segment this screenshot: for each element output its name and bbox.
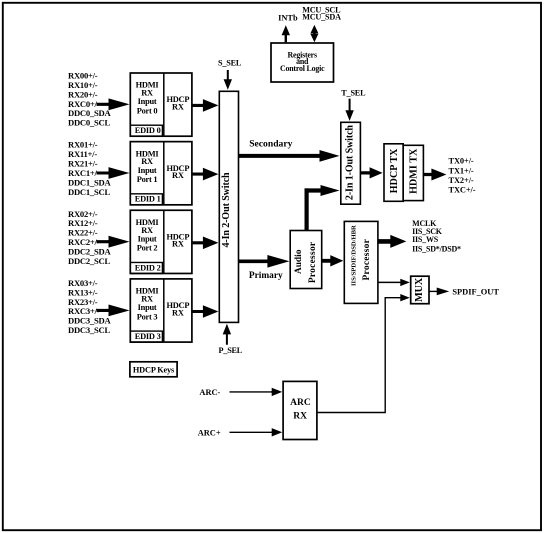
svg-text:TXC+/-: TXC+/- <box>449 186 476 195</box>
svg-text:Control Logic: Control Logic <box>280 64 325 73</box>
svg-text:DDC1_SCL: DDC1_SCL <box>68 187 110 197</box>
svg-text:Audio: Audio <box>294 249 304 274</box>
text: ARC RX <box>290 398 311 421</box>
svg-text:DDC0_SCL: DDC0_SCL <box>68 118 110 128</box>
wire: arrow HDCP RX 2 to 4-In 2-Out Switch <box>192 237 219 250</box>
outline port 2 box <box>130 210 192 273</box>
wire: ARC RX output to MUX <box>317 298 400 413</box>
wire: INTb arrow up <box>282 25 290 42</box>
wire: arrow Audio Processor to IIS/SPDIF processor <box>322 255 343 266</box>
wire: MCU_SCL/SDA double arrow <box>310 25 318 42</box>
svg-text:Processor: Processor <box>362 239 372 281</box>
svg-text:TX0+/-: TX0+/- <box>449 157 474 166</box>
wire: arrow HDCP RX 0 to 4-In 2-Out Switch <box>192 99 219 112</box>
wire: ARC- line <box>230 391 273 393</box>
wire: Primary bus arrow <box>239 255 290 268</box>
block: 2-In 1-Out Switch <box>341 122 361 204</box>
wire: P_SEL arrow into switch bottom <box>223 324 231 345</box>
svg-text:2-In 1-Out Switch: 2-In 1-Out Switch <box>344 125 355 201</box>
wire: ARC+ arrowhead <box>271 428 282 436</box>
svg-text:HDCP TX: HDCP TX <box>389 148 400 193</box>
outline port 0 box <box>130 73 192 136</box>
svg-text:EDID 2: EDID 2 <box>135 263 161 272</box>
svg-text:Primary: Primary <box>249 271 283 281</box>
svg-text:RX: RX <box>172 308 184 317</box>
wire: thick arrow IIS outputs <box>378 235 406 248</box>
text: Audio Processor <box>294 242 318 284</box>
wire: thick input arrow into port 2 <box>97 236 130 248</box>
block: 4-In 2-Out Switch <box>219 91 238 322</box>
wire: arrowhead ARC line into MUX <box>399 294 410 301</box>
labels: TX outputs <box>449 157 476 195</box>
text: Registers and Control Logic <box>280 51 325 73</box>
svg-text:Secondary: Secondary <box>249 139 292 150</box>
svg-text:MUX: MUX <box>414 277 425 302</box>
wire: thick input arrow into port 1 <box>97 167 130 179</box>
svg-text:RX: RX <box>172 171 184 180</box>
wire: HDMI TX output arrow <box>423 169 446 181</box>
svg-text:RX: RX <box>293 412 307 422</box>
svg-text:IIS_WS: IIS_WS <box>412 235 439 244</box>
block: HDMI RX Input Port 1 (with HDCP RX cell) <box>130 142 192 205</box>
block: HDMI TX <box>403 145 423 200</box>
wire: arrow HDCP RX 1 to 4-In 2-Out Switch <box>192 168 219 181</box>
labels: port 3 input signal names <box>68 278 111 335</box>
svg-text:Port 0: Port 0 <box>137 106 158 115</box>
wire: arrow IIS processor to MUX <box>378 279 410 286</box>
svg-text:RX: RX <box>172 240 184 249</box>
divider line port 0 <box>163 73 165 136</box>
outline port 1 box <box>130 142 192 205</box>
svg-text:TX1+/-: TX1+/- <box>449 166 474 175</box>
svg-text:Processor: Processor <box>308 242 318 284</box>
svg-text:SPDIF_OUT: SPDIF_OUT <box>452 287 499 296</box>
svg-text:Port 2: Port 2 <box>137 244 158 253</box>
svg-text:Port 1: Port 1 <box>137 175 158 184</box>
wire: Secondary bus arrow <box>239 150 340 162</box>
svg-text:TX2+/-: TX2+/- <box>449 176 474 185</box>
wire: thick input arrow into port 3 <box>97 305 130 317</box>
svg-text:INTb: INTb <box>278 14 298 23</box>
svg-text:MCU_SDA: MCU_SDA <box>302 13 341 22</box>
svg-text:Input: Input <box>138 97 157 106</box>
block: Audio Processor <box>290 231 322 289</box>
labels: port 1 input signal names <box>68 140 111 197</box>
block: ARC RX <box>283 381 317 439</box>
svg-text:EDID 3: EDID 3 <box>135 332 161 341</box>
EDID 0 sub-box <box>130 125 162 136</box>
svg-text:IIS_SD*/DSD*: IIS_SD*/DSD* <box>412 244 461 253</box>
outline port 3 box <box>130 279 192 342</box>
EDID 3 sub-box <box>130 331 162 342</box>
labels: audio interface outputs <box>412 219 461 253</box>
svg-text:Input: Input <box>138 303 157 312</box>
svg-text:HDMI TX: HDMI TX <box>408 148 419 194</box>
svg-text:T_SEL: T_SEL <box>341 89 366 98</box>
divider line port 3 <box>163 279 165 342</box>
block: HDMI RX Input Port 2 (with HDCP RX cell) <box>130 210 192 273</box>
svg-text:ARC-: ARC- <box>199 388 220 397</box>
labels: port 2 input signal names <box>68 209 111 266</box>
svg-text:S_SEL: S_SEL <box>218 59 242 68</box>
svg-text:HDCP Keys: HDCP Keys <box>133 365 175 374</box>
svg-text:Input: Input <box>138 166 157 175</box>
EDID 2 sub-box <box>130 262 162 273</box>
wire: arrow 2-In 1-Out Switch to HDCP TX <box>360 167 382 178</box>
wire: thick input arrow into port 0 <box>97 98 130 110</box>
block: Registers and Control Logic <box>271 43 334 82</box>
svg-text:DDC3_SCL: DDC3_SCL <box>68 325 110 335</box>
block: HDCP Keys <box>130 362 177 377</box>
svg-text:DDC2_SCL: DDC2_SCL <box>68 256 110 266</box>
wire: ARC+ line <box>230 431 273 433</box>
wire: SPDIF_OUT arrowhead <box>437 288 450 296</box>
svg-text:ARC: ARC <box>290 398 311 408</box>
block: IIS/SPDIF/DSD/HBR Processor <box>344 221 378 303</box>
block: HDMI RX Input Port 3 (with HDCP RX cell) <box>130 279 192 342</box>
block: HDMI RX Input Port 0 (with HDCP RX cell) <box>130 73 192 136</box>
svg-text:P_SEL: P_SEL <box>219 346 243 355</box>
svg-text:Port 3: Port 3 <box>137 312 158 321</box>
wire: arrow HDCP RX 3 to 4-In 2-Out Switch <box>192 305 219 318</box>
svg-text:ARC+: ARC+ <box>198 428 221 437</box>
labels: port 0 input signal names <box>68 71 111 128</box>
wire: MUX output line <box>429 290 437 292</box>
divider line port 1 <box>163 142 165 205</box>
svg-text:4-In 2-Out Switch: 4-In 2-Out Switch <box>221 172 232 248</box>
svg-text:Input: Input <box>138 234 157 243</box>
wire: ARC- arrowhead <box>271 388 282 396</box>
block: MUX <box>411 276 429 304</box>
svg-text:EDID 0: EDID 0 <box>135 126 161 135</box>
wire: arrow into 2-In 1-Out Switch lower input <box>305 185 340 196</box>
wire: S_SEL arrow into switch top <box>224 70 232 90</box>
text: IIS/SPDIF/DSD/HBR Processor <box>351 225 372 286</box>
EDID 1 sub-box <box>130 194 162 205</box>
wire: branch from Audio Processor top <box>305 188 309 230</box>
divider line port 2 <box>163 210 165 273</box>
block: HDCP TX <box>384 144 403 202</box>
wire: T_SEL arrow into switch <box>345 99 353 121</box>
svg-text:EDID 1: EDID 1 <box>135 195 161 204</box>
svg-text:IIS/SPDIF/DSD/HBR: IIS/SPDIF/DSD/HBR <box>351 225 358 286</box>
svg-text:RX: RX <box>172 102 184 111</box>
